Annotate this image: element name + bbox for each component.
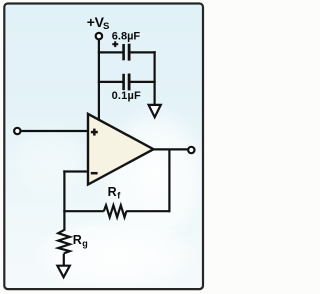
resistor Rf [104, 205, 127, 217]
wire: op-amp output to output terminal [154, 148, 189, 150]
polarity + of C1 [112, 41, 118, 47]
svg-text:R: R [108, 185, 117, 199]
label +Vs [87, 14, 110, 32]
wire: feedback drop from output node [168, 149, 170, 212]
svg-text:0.1µF: 0.1µF [112, 90, 141, 102]
capacitor C1 6.8µF [124, 44, 130, 61]
resistor Rg [58, 230, 70, 254]
output terminal [188, 147, 194, 153]
svg-text:R: R [73, 233, 82, 247]
input terminal [14, 128, 20, 134]
svg-text:S: S [103, 21, 109, 32]
wire: Rf left lead to inverting node [63, 210, 104, 212]
wire: C2 right plate to right rail [130, 81, 155, 83]
supply terminal +Vs [96, 33, 102, 39]
op-amp U1 [88, 114, 154, 185]
svg-text:g: g [82, 238, 88, 248]
pin label + (non-inverting) [91, 129, 98, 136]
wire: input terminal to + input [21, 130, 88, 132]
svg-text:+V: +V [87, 14, 105, 30]
wire: Rf right lead [126, 210, 169, 212]
label Rg [73, 233, 88, 249]
ground (decoupling) [149, 105, 161, 117]
svg-text:6.8µF: 6.8µF [112, 30, 141, 42]
wire: +Vs terminal down to op-amp power pin [98, 40, 100, 121]
wire: inverting node vertical [63, 170, 65, 230]
ground (Rg) [57, 266, 69, 278]
pin label - (inverting) [91, 172, 98, 175]
wire: top branch to C1 [98, 51, 123, 53]
wire: inverting input horizontal [63, 170, 88, 172]
panel background [4, 4, 203, 290]
label Rf [108, 185, 122, 200]
capacitor C2 0.1µF [124, 74, 130, 91]
wire: lower branch to C2 [98, 81, 123, 83]
wire: C1 right plate to right rail [130, 51, 155, 53]
wire: Rg to ground [63, 254, 65, 266]
wire: decoupling ground rail [154, 51, 156, 104]
